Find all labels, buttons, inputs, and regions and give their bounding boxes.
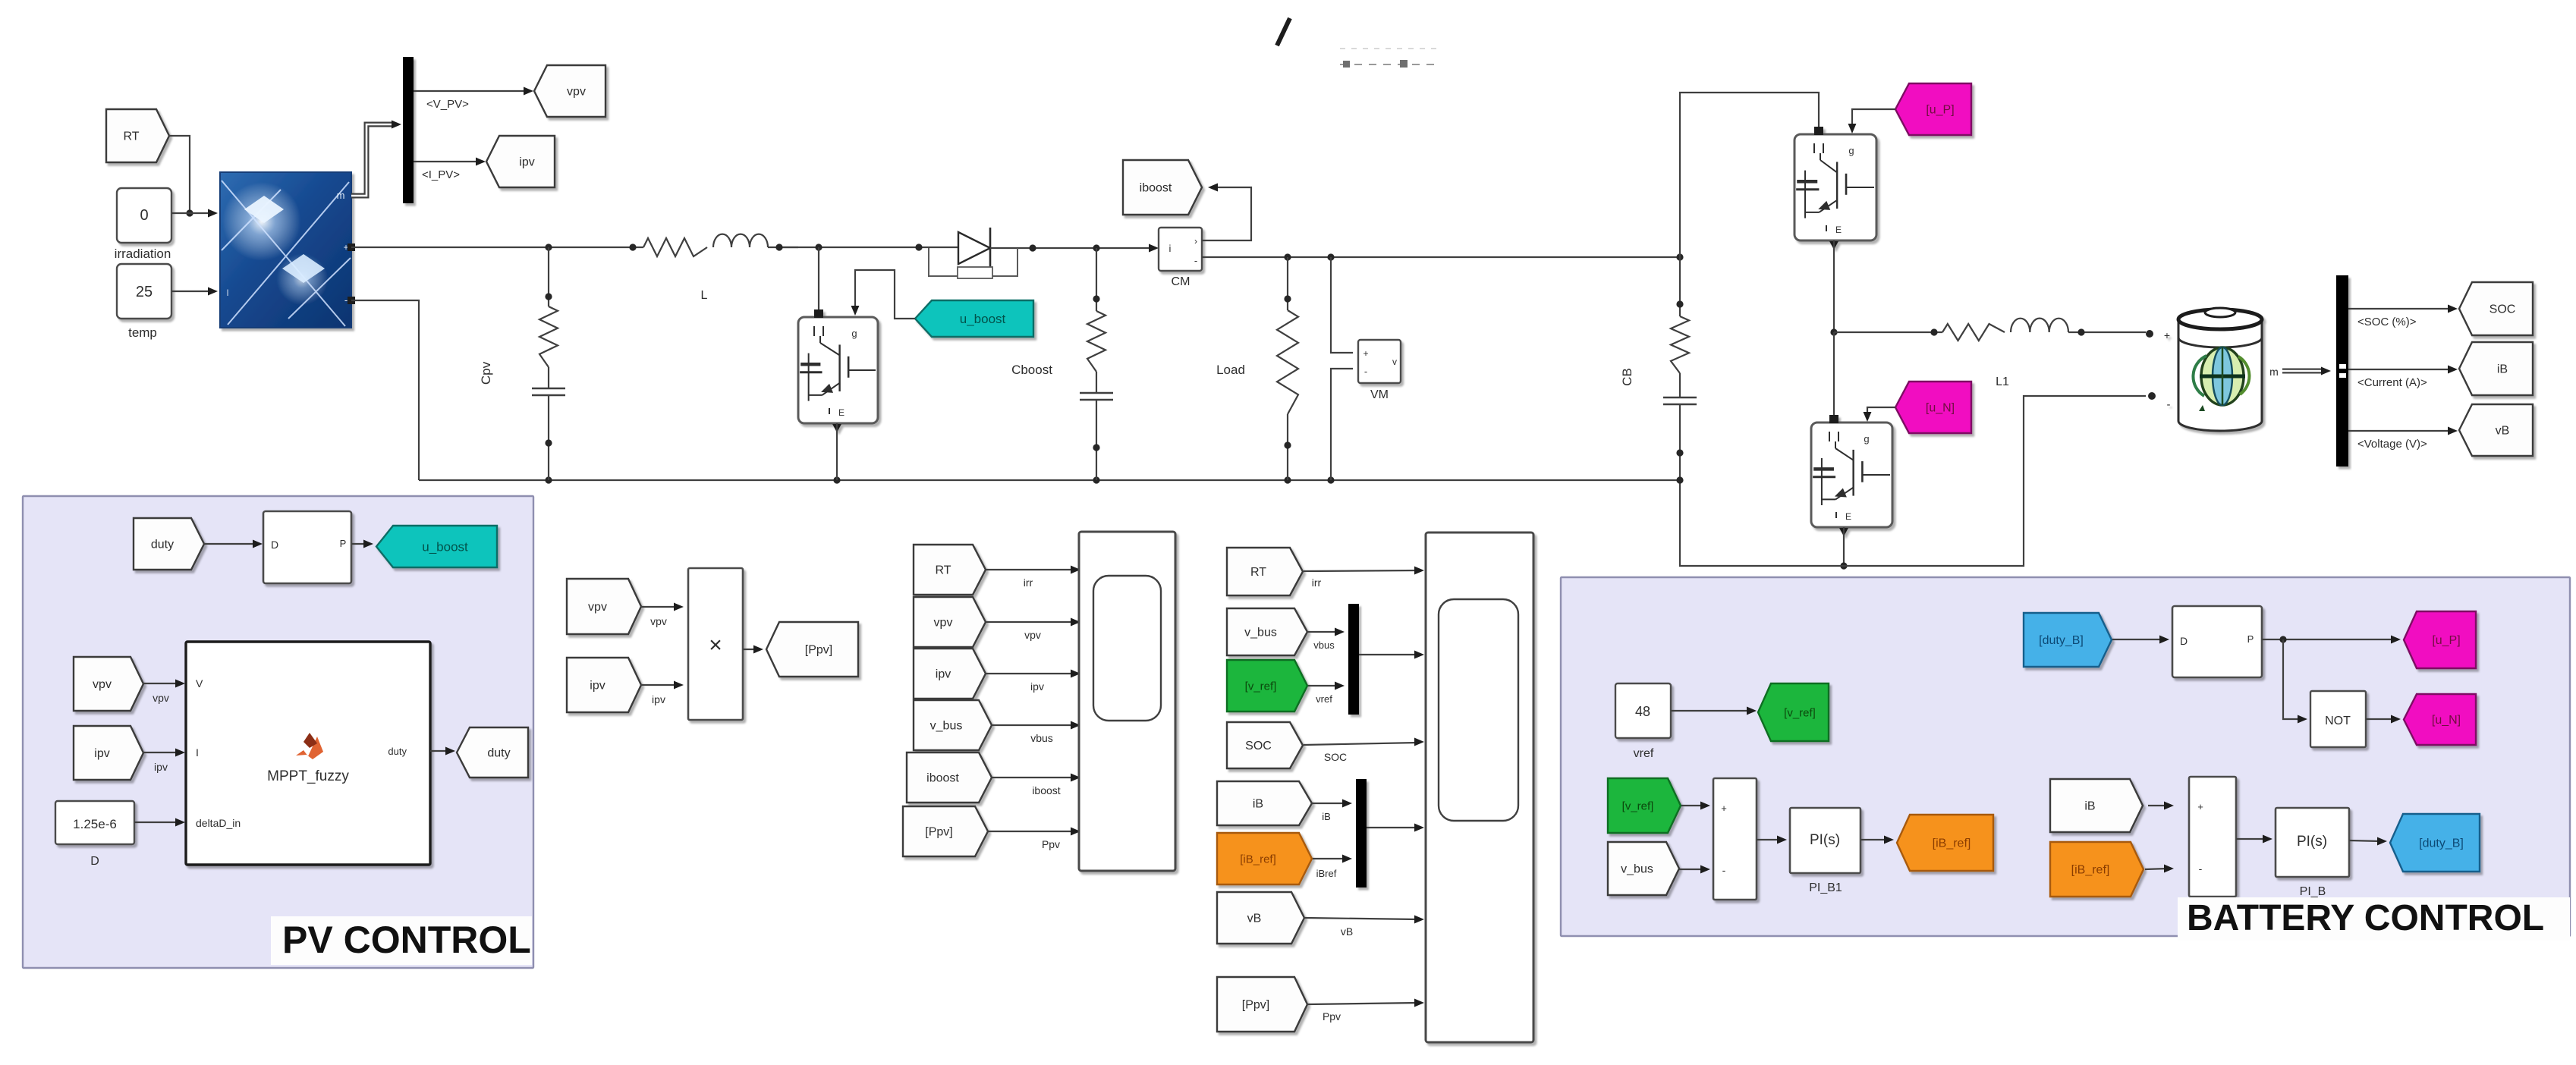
wire iB to sum2 [2148,802,2174,810]
svg-text:D: D [2180,635,2188,647]
signal label SOC scope2 [1324,751,1347,763]
svg-text:ipv: ipv [1030,680,1044,693]
goto tag v_ref scope2 green [1227,660,1307,712]
BATTERY CONTROL title [2178,897,2570,941]
svg-text:u_boost: u_boost [960,312,1006,326]
svg-text:duty: duty [487,747,510,760]
svg-text:SOC: SOC [1324,751,1347,763]
svg-text:[iB_ref]: [iB_ref] [1240,853,1276,866]
svg-text:Cboost: Cboost [1011,363,1052,377]
inductor L series resistor [643,234,798,256]
svg-text:1.25e-6: 1.25e-6 [73,817,117,831]
svg-text:-: - [1364,366,1367,377]
svg-text:iB: iB [1253,798,1263,811]
battery negative port dot [2148,392,2156,400]
svg-text:BATTERY CONTROL: BATTERY CONTROL [2187,898,2544,938]
wire MPPT duty output to goto [430,747,455,756]
goto tag Ppv [766,622,858,677]
svg-text:[u_P]: [u_P] [1926,104,1954,117]
svg-text:L1: L1 [1996,375,2009,388]
svg-text:vpv: vpv [93,678,112,691]
wire ipv to scope1 [986,670,1080,678]
svg-text:vbus: vbus [1030,732,1053,744]
wire IGBT3 emitter to bottom return [1840,527,1847,570]
svg-text:[u_P]: [u_P] [2432,634,2460,647]
svg-text:PV CONTROL: PV CONTROL [282,919,531,961]
signal label iB scope2 [1322,811,1331,822]
label PI_B [2300,885,2326,898]
PI controller PI_B [2276,808,2349,877]
from tag u_N [1895,382,1971,433]
from tag v_bus scope1 [914,700,992,750]
signal label vpv product [650,615,667,627]
svg-text:irr: irr [1312,576,1322,589]
goto tag iB [2459,342,2533,395]
wire [Ppv] to scope1 [989,828,1080,836]
capacitor branch CB [1663,257,1697,480]
from tag vpv product [567,579,641,634]
IGBT1 boost switch block [798,309,878,432]
svg-text:-: - [344,294,348,306]
svg-text:vB: vB [1341,925,1353,938]
svg-text:vref: vref [1634,747,1654,760]
signal label iboost scope1 [1032,784,1060,796]
wire NOT to u_N goto [2366,715,2401,724]
svg-text:NOT: NOT [2325,715,2351,727]
svg-text:-: - [1194,255,1197,266]
wire duty_B to PWM2 [2112,636,2169,644]
from tag v_bus scope2 [1227,608,1307,655]
svg-text:iB: iB [1322,811,1331,822]
constant block irradiation value 0 [117,188,171,243]
from tag ipv into MPPT [74,726,143,780]
from tag iB_ref battery [2050,842,2144,897]
label PI_B1 [1809,881,1842,894]
product block [688,568,743,720]
svg-text:irradiation: irradiation [115,247,171,261]
signal label <I_PV> [422,168,460,181]
svg-text:SOC: SOC [2490,303,2516,316]
constant block D deltaD [55,801,134,844]
wire IGBT2 emitter to midpoint [1830,240,1837,336]
svg-text:vB: vB [1247,913,1262,925]
svg-text:L: L [701,289,708,302]
svg-text:[u_N]: [u_N] [2432,714,2461,727]
wire PWM to u_boost goto [351,540,373,548]
svg-text:vpv: vpv [588,601,607,614]
label L [701,289,708,302]
bus wire PV m output to bus selector [351,124,395,196]
svg-text:<Current (A)>: <Current (A)> [2357,376,2427,389]
svg-text:irr: irr [1024,576,1033,589]
svg-text:[v_ref]: [v_ref] [1622,800,1654,812]
svg-text:Ppv: Ppv [1323,1010,1341,1023]
wire v_bus to scope1 [992,721,1080,730]
svg-text:v_bus: v_bus [1621,863,1653,876]
wire sum2 to PI_B [2236,835,2272,844]
sum block voltage error [1713,778,1757,900]
wire RT to scope1 [986,566,1080,574]
wire u_P to IGBT2 gate [1848,109,1895,134]
svg-text:I: I [226,287,228,298]
svg-text:PI(s): PI(s) [1810,832,1840,848]
wire vpv to scope1 [986,618,1080,627]
label temp [128,325,157,340]
rail wire L to diode [775,243,958,250]
svg-text:<I_PV>: <I_PV> [422,168,460,181]
mux bar voltage [1348,604,1359,715]
goto tag vpv [534,65,605,117]
svg-text:D: D [90,855,99,868]
wire v_ref to mux [1308,682,1345,690]
svg-text:25: 25 [136,284,153,300]
from tag vB scope2 [1217,892,1304,944]
svg-text:iB: iB [2084,800,2095,813]
voltage measurement block VM [1358,340,1401,383]
svg-text:u_boost: u_boost [422,539,468,554]
capacitor branch Cpv [532,247,565,480]
svg-text:vpv: vpv [934,617,953,630]
svg-text:D: D [271,539,278,551]
svg-text:+: + [1721,803,1727,814]
svg-text:[v_ref]: [v_ref] [1245,680,1277,693]
svg-text:<V_PV>: <V_PV> [426,98,469,111]
current measurement block CM [1159,228,1202,271]
rail wire diode to CM [1029,244,1155,251]
PV CONTROL panel [23,496,533,968]
mux bar current [1356,779,1367,887]
svg-text:Ppv: Ppv [1042,838,1060,850]
from tag u_boost gate signal [915,300,1033,337]
IGBT2 upper battery switch [1794,127,1876,250]
svg-text:m: m [2269,366,2279,378]
wire PWM2 to u_P goto with branch [2262,636,2401,644]
svg-text:iboost: iboost [1140,182,1172,195]
label vref constant [1634,747,1654,760]
svg-text:-: - [2199,862,2203,875]
from tag ipv scope1 [914,649,986,699]
wire ipv to product [641,681,684,690]
svg-text:iB: iB [2497,363,2508,376]
svg-text:vpv: vpv [567,86,586,99]
svg-text:ipv: ipv [94,747,109,760]
svg-text:›: › [1194,236,1197,247]
bus selector bar for battery measurements [2336,275,2348,467]
label Load [1216,363,1245,377]
from tag u_P [1895,83,1971,135]
from tag iB_ref scope2 orange [1217,833,1312,884]
from tag duty_B battery [2024,613,2112,667]
logic NOT block [2310,691,2366,747]
from tag ipv product [567,658,641,712]
wire v_bus to mux [1308,628,1345,636]
signal label vref scope2 [1316,693,1332,705]
signal label ipv mppt [154,761,168,773]
from tag Ppv scope2 [1217,977,1307,1032]
signal label ipv scope1 [1030,680,1044,693]
MPPT fuzzy controller block [186,642,430,865]
svg-text:vpv: vpv [153,692,169,704]
signal label <SOC (%)> [2357,316,2417,328]
wire vB to scope2 [1305,916,1424,924]
goto tag SOC [2459,282,2533,335]
svg-text:P: P [340,538,347,549]
svg-text:vbus: vbus [1313,639,1335,651]
PWM generator block battery [2172,606,2262,677]
signal label <Voltage (V)> [2357,438,2427,451]
from tag iB battery [2050,779,2143,832]
wire u_boost to IGBT1 gate [851,270,915,319]
svg-text:+: + [2197,801,2203,812]
wire duty to PWM block [204,540,263,548]
goto tag u_P battery [2404,611,2476,668]
svg-text:[duty_B]: [duty_B] [2039,634,2084,647]
bottom rail left section [419,476,1680,483]
wire iB to mux2 [1313,800,1352,808]
label L1 [1996,375,2009,388]
svg-text:PI(s): PI(s) [2297,834,2327,850]
svg-text:E: E [1845,511,1851,522]
svg-text:ipv: ipv [154,761,168,773]
wire v_bus to sum1 [1679,866,1710,874]
svg-text:[u_N]: [u_N] [1926,402,1955,415]
label CB [1620,368,1634,386]
goto tag v_ref green [1758,683,1829,741]
svg-text:V: V [196,677,203,690]
svg-text:ipv: ipv [936,668,951,681]
battery positive port dot [2146,330,2153,338]
svg-text:i: i [1169,243,1172,254]
wire PI_B to duty_B goto [2349,837,2387,846]
svg-text:Cpv: Cpv [479,361,493,385]
svg-text:PI_B1: PI_B1 [1809,881,1842,894]
wire RT to scope2 [1304,567,1424,575]
wire SOC output [2348,305,2458,313]
wire PV positive output rail [351,243,643,250]
goto tag iB_ref orange [1897,815,1993,871]
arrowhead into CM [1149,244,1159,253]
wire rail up to IGBT2 [1680,93,1819,257]
svg-text:g: g [1864,433,1869,445]
wire irradiation to PV input [171,209,218,218]
svg-text:iboost: iboost [1032,784,1060,796]
wire u_N to IGBT3 gate [1864,407,1895,422]
label m port [2269,366,2279,378]
svg-text:-: - [1722,864,1726,876]
svg-text:v_bus: v_bus [930,720,963,733]
signal label iBref scope2 [1316,868,1337,879]
goto tag iboost mirrored [1123,160,1202,215]
wire RT to irradiation line [169,136,193,217]
svg-text:×: × [709,633,722,658]
goto tag vB [2459,404,2533,456]
signal label irr scope1 [1024,576,1033,589]
wire rail to IGBT1 collector [818,247,819,313]
wire midpoint to IGBT3 collector [1833,332,1835,419]
wire PV negative output to bottom rail [351,300,419,480]
from tag v_ref battery [1608,778,1681,833]
svg-text:[iB_ref]: [iB_ref] [1933,837,1971,850]
svg-text:E: E [838,407,845,418]
svg-text:[duty_B]: [duty_B] [2419,837,2464,850]
svg-text:[Ppv]: [Ppv] [925,826,952,839]
signal label vpv mppt [153,692,169,704]
svg-text:I: I [196,746,199,759]
svg-text:[iB_ref]: [iB_ref] [2071,864,2110,877]
wire V_PV to vpv tag [414,87,533,96]
svg-text:vpv: vpv [1024,629,1041,641]
svg-text:g: g [1848,145,1854,156]
IGBT3 lower battery switch [1811,415,1892,536]
signal label vB scope2 [1341,925,1353,938]
wire ipv to MPPT I input [143,749,185,757]
wire iB_ref to sum2 [2145,865,2174,873]
PV CONTROL title [271,916,532,965]
arrowhead into battery bus selector [2321,367,2331,375]
from tag v_bus battery [1608,842,1679,895]
bus selector bar for PV measurements [403,57,414,203]
label CM [1172,275,1190,288]
svg-text:vpv: vpv [650,615,667,627]
arrowhead into bus selector [392,121,401,129]
signal label <V_PV> [426,98,469,111]
goto tag duty_B blue [2390,814,2480,872]
svg-text:Load: Load [1216,363,1245,377]
signal label vpv scope1 [1024,629,1041,641]
svg-text:PI_B: PI_B [2300,885,2326,898]
wire CM i output to iboost tag [1202,184,1251,240]
wire product to Ppv goto [743,646,763,654]
svg-text:ipv: ipv [652,693,665,705]
from tag vpv scope1 [914,597,986,647]
svg-text:RT: RT [935,564,951,577]
from tag iB scope2 [1217,781,1312,825]
wire mux voltage to scope2 [1359,651,1424,659]
wire sum1 to PI_B1 [1757,836,1787,844]
signal label Ppv scope2 [1323,1010,1341,1023]
svg-text:v_bus: v_bus [1244,627,1277,639]
svg-text:vref: vref [1316,693,1332,705]
wire Ppv to scope2 [1308,999,1424,1007]
svg-text:temp: temp [128,325,157,340]
capacitor branch Cboost [1080,248,1113,480]
wire vpv to product [641,603,684,611]
svg-text:deltaD_in: deltaD_in [196,817,241,829]
goto tag u_N battery [2404,694,2476,745]
wire PI_B1 to iB_ref goto [1860,836,1894,844]
resistor branch Load [1277,257,1298,480]
svg-text:48: 48 [1635,704,1650,719]
wire VM measurement taps [1331,257,1353,353]
svg-text:0: 0 [140,207,148,224]
svg-text:+: + [2164,329,2170,341]
wire vB output [2348,427,2458,435]
PWM generator block D to P [263,511,351,583]
signal label <Current (A)> [2357,376,2427,389]
PI controller PI_B1 [1790,808,1860,873]
svg-text:ipv: ipv [590,680,605,693]
bus wire battery m to bus selector [2282,369,2323,374]
svg-text:SOC: SOC [1245,740,1272,752]
from tag vpv into MPPT [74,657,143,711]
wire vpv to MPPT V input [143,680,185,688]
PV array block [220,172,351,328]
svg-text:P: P [2247,633,2254,645]
signal label ipv product [652,693,665,705]
diode with snubber [929,228,1033,278]
from tag SOC scope2 [1227,722,1303,768]
svg-text:<SOC (%)>: <SOC (%)> [2357,316,2417,328]
svg-text:vB: vB [2496,425,2510,438]
goto tag duty output [457,727,528,778]
constant block 48 [1615,683,1671,738]
svg-text:MPPT_fuzzy: MPPT_fuzzy [267,768,349,784]
signal label vbus scope2 [1313,639,1335,651]
svg-text:ipv: ipv [519,156,534,169]
wire temp to PV input [171,287,218,296]
label irradiation [115,247,171,261]
svg-text:g: g [851,328,857,339]
label Cboost [1011,363,1052,377]
wire 48 to v_ref goto [1671,707,1757,715]
svg-text:[Ppv]: [Ppv] [1242,999,1269,1012]
from tag RT scope1 [914,545,986,595]
svg-text:duty: duty [151,539,174,551]
goto tag ipv [486,136,555,187]
wire D to MPPT deltaD input [134,818,185,827]
svg-text:E: E [1835,225,1842,235]
svg-text:CB: CB [1620,368,1634,386]
svg-text:iboost: iboost [926,772,959,785]
label D constant [90,855,99,868]
wire IGBT1 emitter to bottom rail [836,423,838,480]
main rail CM to H-bridge [1202,253,1684,260]
inductor L1 series resistor [1834,319,2146,341]
bottom return rail of H-bridge [1676,396,2146,566]
svg-text:v: v [1392,357,1397,367]
wire iboost to scope1 [992,774,1080,782]
wire I_PV to ipv tag [414,158,486,166]
svg-text:duty: duty [388,746,407,757]
scope block 1 [1079,532,1175,871]
svg-text:m: m [337,190,345,201]
svg-text:[v_ref]: [v_ref] [1784,706,1816,719]
wire branch to NOT [2283,639,2307,723]
annotation dashed line [1340,49,1442,68]
battery block [2164,308,2262,431]
BATTERY CONTROL panel [1561,577,2570,936]
svg-text:VM: VM [1370,388,1389,401]
label Cpv [479,361,493,385]
signal label Ppv scope1 [1042,838,1060,850]
scope block 2 [1426,532,1533,1042]
wire iB output [2348,366,2458,374]
goto tag u_boost teal [376,526,497,567]
wire SOC to scope2 [1304,738,1424,746]
wire v_ref to sum1 [1681,802,1710,810]
from tag RT scope2 [1227,548,1303,595]
svg-text:[Ppv]: [Ppv] [805,644,832,657]
constant block temp value 25 [117,264,171,319]
annotation slash mark [1277,18,1290,46]
svg-text:RT: RT [1250,566,1266,579]
svg-text:-: - [2167,398,2171,411]
from tag iboost scope1 [907,752,992,803]
wire iB_ref to mux2 [1313,855,1352,863]
from tag RT feeding irradiation node [106,109,169,162]
sum block current error [2189,777,2236,897]
svg-text:+: + [1363,348,1368,359]
